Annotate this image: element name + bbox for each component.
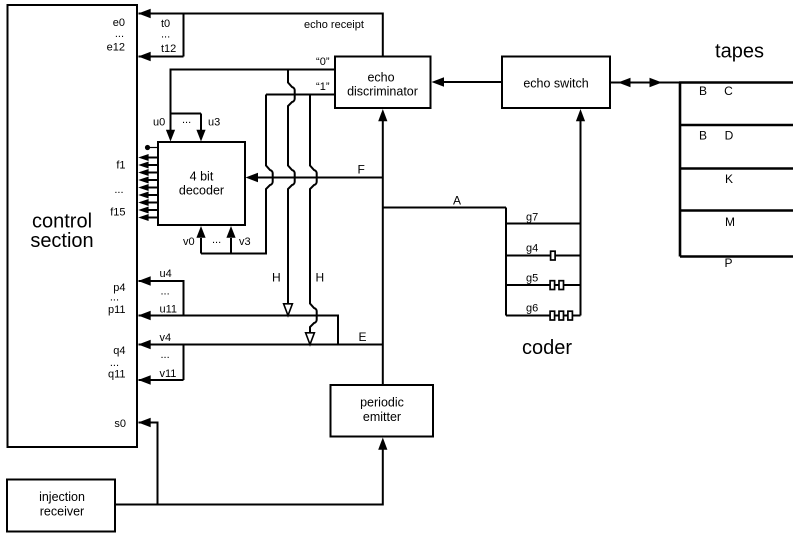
svg-text:decoder: decoder bbox=[179, 184, 224, 198]
svg-text:u4: u4 bbox=[160, 268, 172, 280]
svg-text:echo switch: echo switch bbox=[523, 77, 588, 91]
t register t0...t12 bbox=[138, 14, 183, 62]
svg-text:injection: injection bbox=[39, 490, 85, 504]
wire u4 bbox=[138, 268, 183, 316]
wire echo receipt bbox=[138, 9, 383, 56]
coder line g4 with 1 delay element bbox=[506, 243, 581, 261]
svg-text:q4: q4 bbox=[113, 345, 125, 357]
wire echo switch to tapes (bidirectional) bbox=[611, 78, 681, 87]
svg-text:discriminator: discriminator bbox=[347, 85, 418, 99]
svg-text:B: B bbox=[699, 84, 707, 98]
node dot at decoder strobe bbox=[145, 145, 158, 150]
svg-text:u0: u0 bbox=[153, 117, 165, 129]
echo discriminator U1 bbox=[335, 57, 431, 109]
wire H right (from "1" line, hops over F and u11 line, open arrow onto E line) bbox=[306, 95, 325, 345]
coder line g6 with 3 delay elements bbox=[506, 303, 581, 321]
tape labels B C bbox=[699, 84, 733, 98]
svg-text:f1: f1 bbox=[116, 160, 125, 172]
svg-text:...: ... bbox=[161, 349, 170, 361]
f arrows into control section (9) bbox=[138, 154, 158, 221]
svg-text:“0”: “0” bbox=[316, 56, 330, 68]
wire s0 bbox=[138, 418, 157, 505]
wire u0 into decoder bbox=[166, 114, 175, 142]
wire injection receiver to periodic emitter bbox=[116, 438, 388, 505]
svg-text:receiver: receiver bbox=[40, 505, 84, 519]
pin labels p4...p11 bbox=[108, 282, 126, 316]
svg-text:f15: f15 bbox=[110, 207, 125, 219]
labels v0 ... v3 bbox=[183, 234, 251, 248]
svg-text:C: C bbox=[724, 84, 733, 98]
svg-text:...: ... bbox=[161, 29, 170, 41]
main vertical (periodic emitter to echo discriminator) bbox=[378, 109, 387, 385]
svg-text:g7: g7 bbox=[526, 212, 538, 224]
svg-text:E: E bbox=[359, 330, 367, 344]
svg-text:t12: t12 bbox=[161, 43, 176, 55]
coder right rail to echo switch bbox=[576, 109, 585, 316]
control section box bbox=[8, 5, 138, 447]
coder line g5 with 2 delay elements bbox=[506, 273, 581, 290]
wire v11 bbox=[138, 345, 183, 385]
svg-text:...: ... bbox=[110, 292, 119, 304]
pin labels f1...f15 bbox=[110, 160, 125, 219]
svg-text:F: F bbox=[358, 163, 365, 177]
coder left rail bbox=[505, 208, 507, 316]
svg-text:A: A bbox=[453, 194, 461, 208]
labels u0 ... u3 bbox=[153, 114, 220, 129]
wire u11 / p11 bbox=[138, 286, 338, 345]
wire v0 into decoder bbox=[196, 226, 205, 254]
svg-text:q11: q11 bbox=[108, 369, 126, 381]
svg-text:section: section bbox=[30, 230, 93, 252]
4 bit decoder box bbox=[158, 142, 245, 225]
svg-text:...: ... bbox=[114, 184, 123, 196]
svg-text:H: H bbox=[316, 271, 325, 285]
svg-text:echo: echo bbox=[367, 71, 394, 85]
svg-text:p11: p11 bbox=[108, 304, 126, 316]
svg-text:g6: g6 bbox=[526, 303, 538, 315]
svg-text:K: K bbox=[725, 172, 733, 186]
svg-text:B: B bbox=[699, 129, 707, 143]
pin labels e0...e12 bbox=[107, 17, 125, 54]
svg-text:u3: u3 bbox=[208, 117, 220, 129]
svg-text:v3: v3 bbox=[239, 236, 251, 248]
coder line g7 bbox=[506, 212, 581, 224]
svg-text:M: M bbox=[725, 215, 735, 229]
svg-text:v4: v4 bbox=[160, 332, 172, 344]
svg-text:g5: g5 bbox=[526, 273, 538, 285]
svg-text:g4: g4 bbox=[526, 243, 538, 255]
periodic emitter box bbox=[331, 385, 434, 437]
svg-text:u11: u11 bbox=[160, 304, 178, 316]
svg-text:periodic: periodic bbox=[360, 396, 404, 410]
svg-text:H: H bbox=[272, 271, 281, 285]
svg-text:coder: coder bbox=[522, 337, 572, 359]
svg-text:...: ... bbox=[161, 286, 170, 298]
svg-text:...: ... bbox=[182, 114, 191, 126]
wire F into decoder bbox=[246, 163, 383, 183]
echo switch box bbox=[502, 57, 610, 109]
svg-text:...: ... bbox=[115, 28, 124, 40]
wire echo switch to echo discriminator bbox=[432, 77, 503, 86]
svg-text:s0: s0 bbox=[114, 418, 126, 430]
wire v3 into decoder bbox=[226, 226, 235, 254]
wire u3 into decoder bbox=[196, 114, 205, 142]
wire v4 / E bbox=[138, 330, 383, 349]
wire "1" from echo discriminator bbox=[266, 81, 335, 95]
wire H left (from "0" line, hops over "1" and F, open arrow onto u11 line) bbox=[272, 70, 295, 316]
wire "0" from echo discriminator to u bus bbox=[171, 56, 336, 114]
injection receiver box bbox=[7, 480, 115, 532]
pin labels q4...q11 bbox=[108, 345, 126, 381]
svg-text:...: ... bbox=[212, 234, 221, 246]
svg-text:P: P bbox=[724, 256, 732, 270]
tape labels B D bbox=[699, 129, 734, 143]
svg-text:D: D bbox=[725, 129, 734, 143]
tapes frame bbox=[679, 83, 793, 257]
svg-text:tapes: tapes bbox=[715, 41, 764, 63]
svg-text:“1”: “1” bbox=[316, 81, 330, 93]
svg-text:e12: e12 bbox=[107, 42, 125, 54]
svg-text:emitter: emitter bbox=[363, 410, 401, 424]
svg-text:v0: v0 bbox=[183, 236, 195, 248]
wire A to coder bbox=[383, 194, 506, 208]
svg-text:...: ... bbox=[110, 357, 119, 369]
svg-text:4 bit: 4 bit bbox=[190, 170, 214, 184]
svg-text:echo receipt: echo receipt bbox=[304, 19, 364, 31]
svg-text:v11: v11 bbox=[160, 368, 177, 380]
wire vertical from "1" to v bus (hop over F) bbox=[201, 95, 273, 254]
